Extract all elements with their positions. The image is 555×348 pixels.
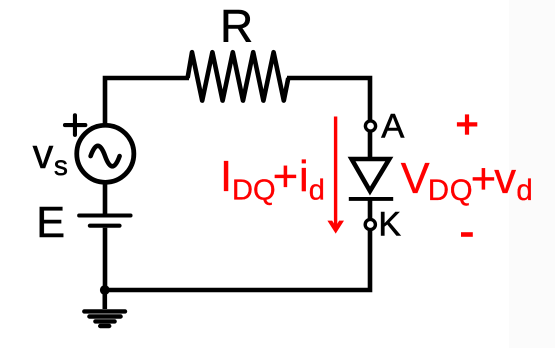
wire diode to node K: [368, 197, 373, 219]
source circle V1: [77, 125, 134, 182]
red current arrow: [327, 117, 344, 234]
wire source to battery: [103, 181, 108, 214]
svg-text:R: R: [220, 0, 253, 52]
sine wave inside source: [91, 146, 120, 167]
ground bars: [84, 311, 125, 326]
red plus polarity mark: [457, 114, 477, 134]
battery E short plate: [90, 224, 120, 228]
wire node K down and bottom wire: [103, 231, 370, 291]
wire node A to diode: [368, 132, 373, 161]
wire top right segment and right vertical: [287, 78, 370, 120]
svg-text:K: K: [378, 206, 401, 244]
svg-text:E: E: [36, 199, 65, 247]
junction dot: [100, 285, 110, 295]
diode D1 triangle: [352, 159, 390, 191]
battery E long plate: [79, 214, 131, 218]
svg-text:A: A: [381, 108, 404, 146]
ground stem: [103, 290, 108, 309]
wire battery to bottom node: [103, 228, 108, 290]
resistor R zigzag: [188, 52, 289, 100]
node A circle: [365, 121, 375, 131]
wire left vertical and top left segment: [105, 78, 189, 127]
node K circle: [365, 219, 375, 229]
diode D1 cathode bar: [349, 197, 393, 201]
red minus polarity mark: [461, 232, 473, 237]
plus polarity mark at source: [65, 115, 85, 135]
